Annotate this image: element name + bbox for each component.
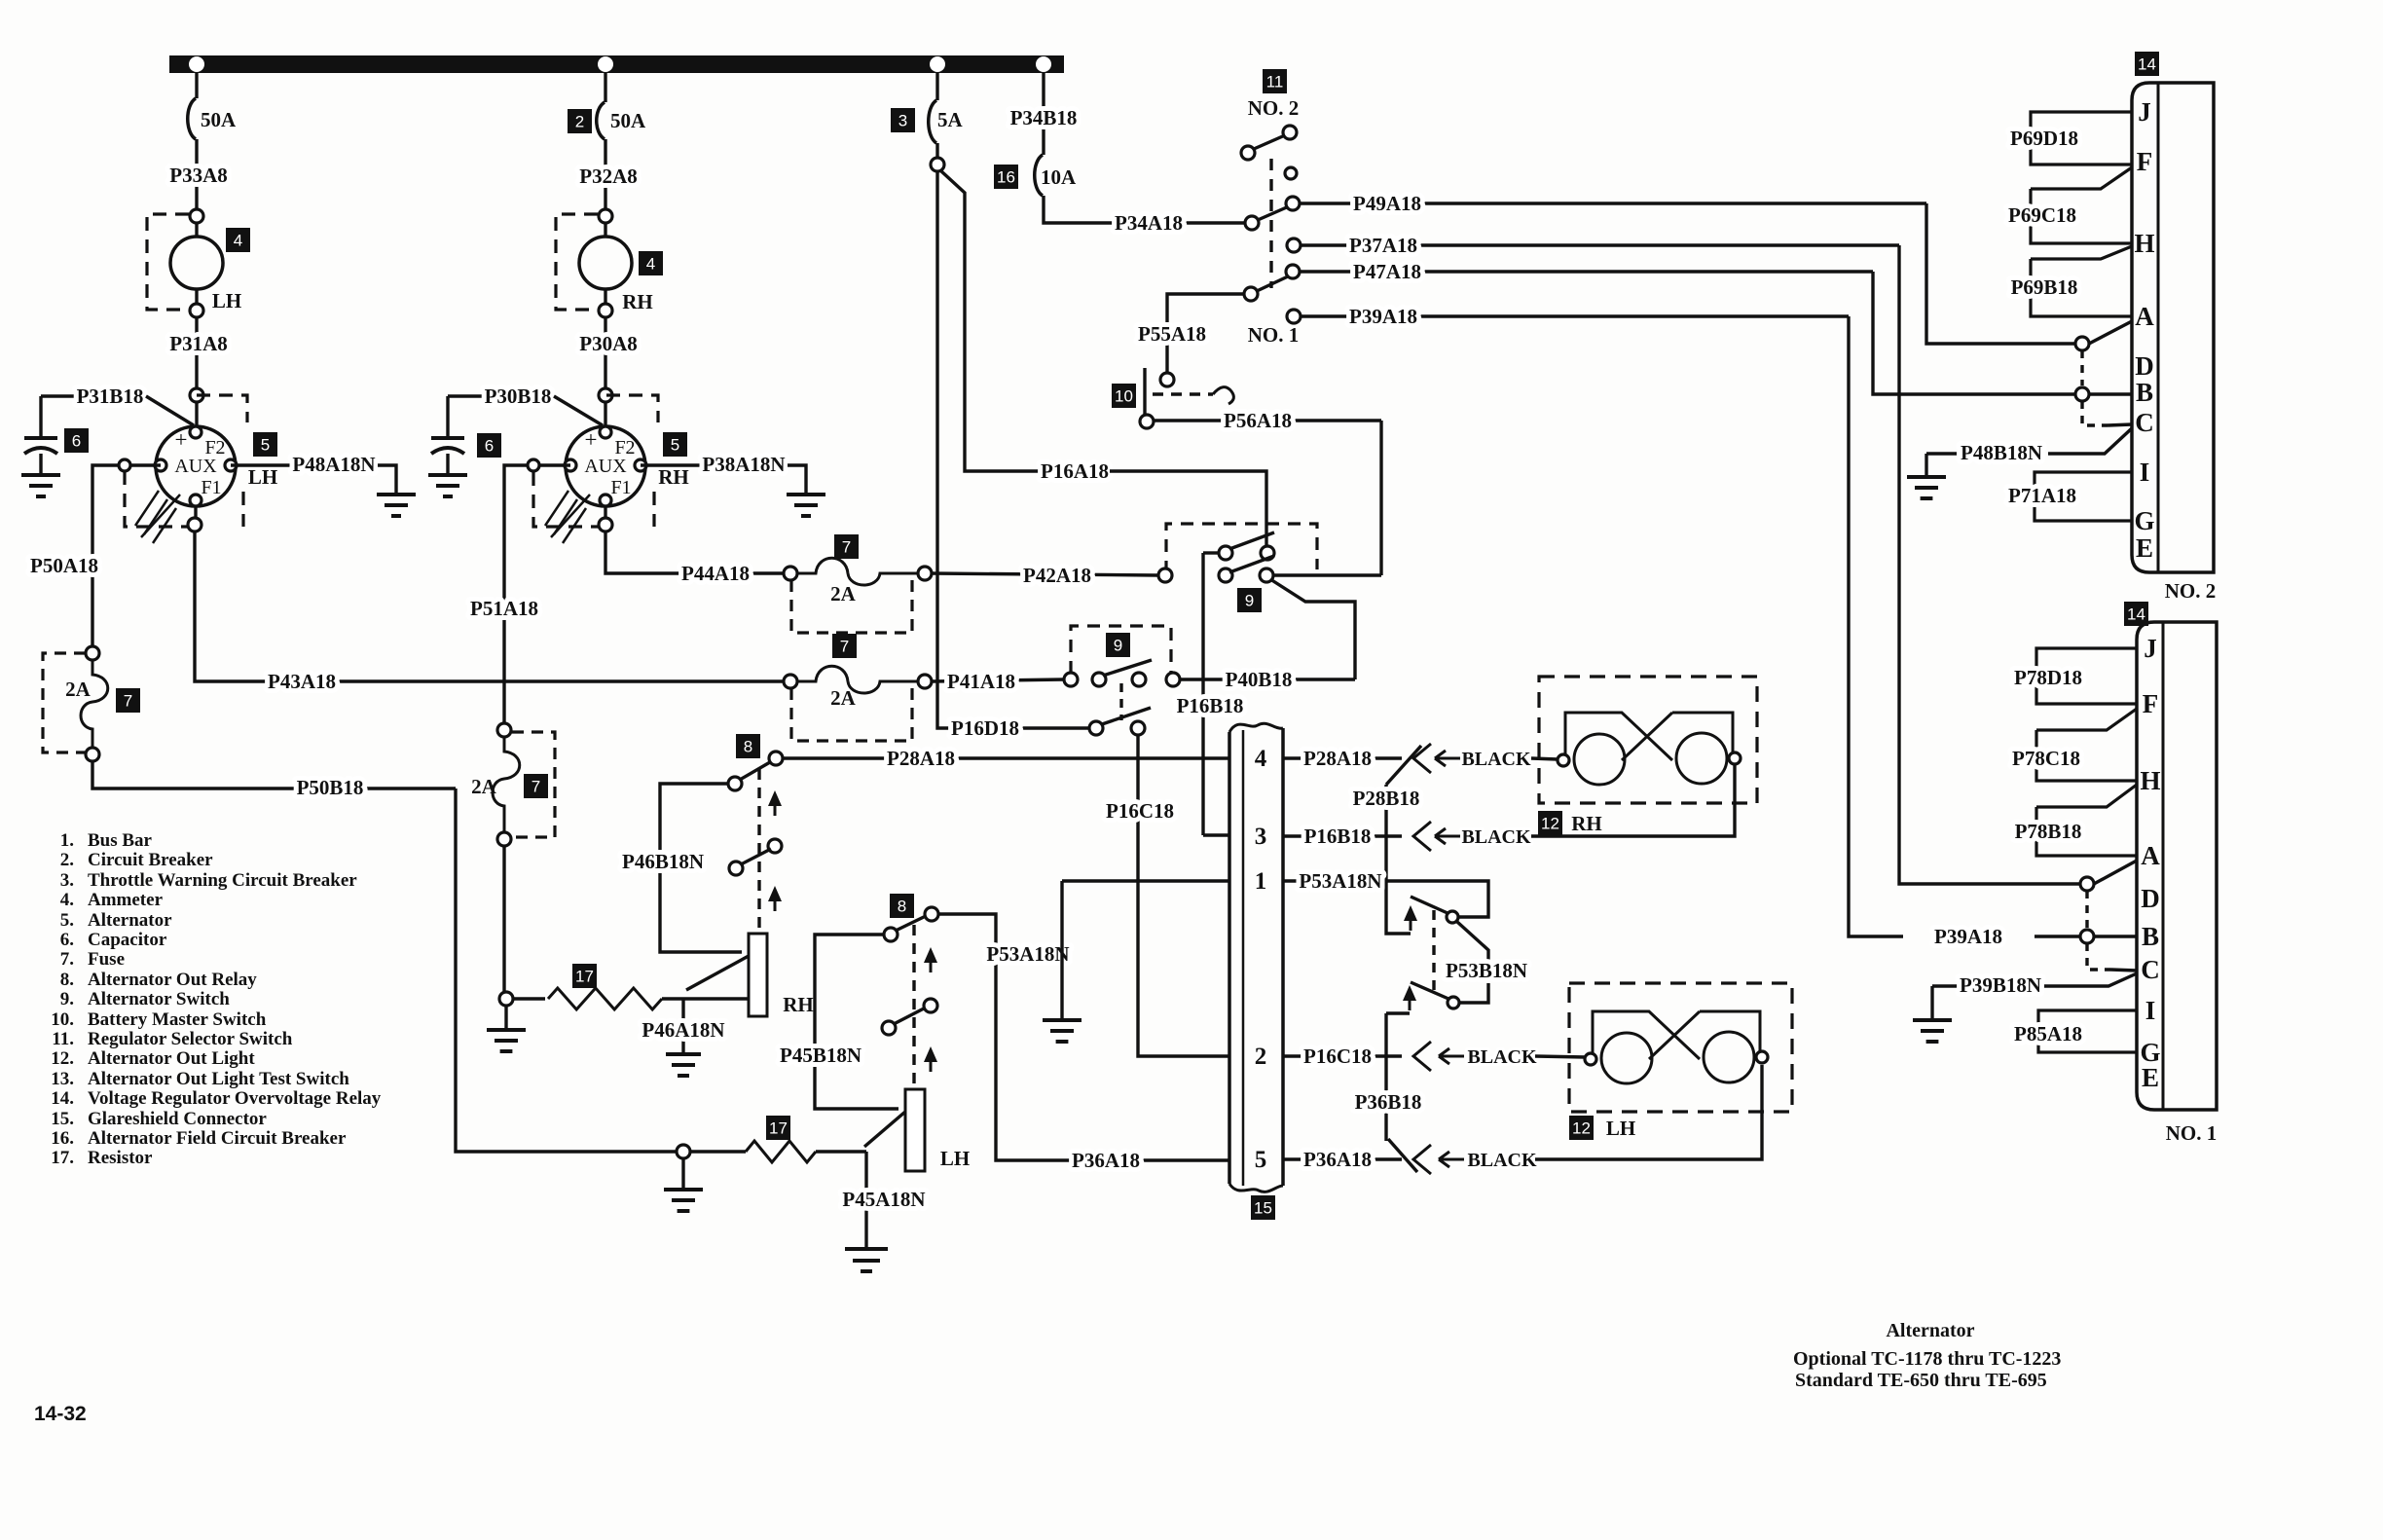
wire P39A18 drop: [1849, 316, 1903, 936]
bus junction node 2: [598, 56, 613, 72]
spade pin4: [1413, 744, 1431, 773]
wire aux LH to junction: [130, 463, 161, 466]
wire into pin B no1: [2094, 935, 2138, 937]
P36B18 tail: [1388, 1139, 1417, 1172]
badge 6 LH: [64, 428, 89, 453]
alternator field circuit breaker 10A (item 16): [1035, 155, 1043, 196]
badge 17 LH: [766, 1116, 790, 1140]
svg-text:P45B18N: P45B18N: [780, 1044, 862, 1067]
svg-text:Battery Master Switch: Battery Master Switch: [88, 1009, 267, 1030]
svg-text:Glareshield Connector: Glareshield Connector: [88, 1109, 267, 1129]
svg-text:P49A18: P49A18: [1353, 192, 1421, 215]
svg-text:7: 7: [842, 538, 851, 557]
svg-text:D: D: [2141, 884, 2160, 913]
wire into pin C no1: [2110, 970, 2137, 971]
svg-text:5: 5: [671, 436, 679, 455]
svg-text:7: 7: [840, 638, 849, 656]
wire P31B18 diagonal: [146, 396, 194, 425]
svg-text:Resistor: Resistor: [88, 1148, 153, 1168]
svg-text:F1: F1: [201, 477, 221, 498]
svg-text:B: B: [2136, 378, 2153, 407]
svg-text:Alternator Out Light: Alternator Out Light: [88, 1048, 255, 1069]
alternator switch (item 9) dashed box left: [1071, 626, 1171, 674]
svg-text:P50A18: P50A18: [30, 554, 98, 577]
svg-text:P53A18N: P53A18N: [986, 942, 1069, 966]
wire P53A18N left: [1062, 879, 1229, 882]
svg-text:P28B18: P28B18: [1353, 787, 1420, 810]
svg-text:BLACK: BLACK: [1461, 826, 1531, 848]
svg-text:Alternator Field Circuit Break: Alternator Field Circuit Breaker: [88, 1128, 347, 1149]
battery master switch dashed link: [1153, 392, 1213, 395]
wire aux RH to junction: [539, 463, 570, 466]
wire to resistor LH: [690, 1150, 746, 1153]
fuse P51 top terminal: [497, 723, 511, 737]
wire P28A18: [783, 756, 1229, 759]
wire P31B18: [41, 394, 76, 397]
svg-text:P16B18: P16B18: [1304, 825, 1372, 848]
svg-text:2: 2: [575, 113, 584, 131]
svg-text:I: I: [2140, 458, 2150, 487]
svg-text:P38A18N: P38A18N: [702, 453, 785, 476]
wire P45A18N: [864, 1152, 867, 1249]
badge 7 fuse P42: [834, 534, 859, 559]
svg-text:6: 6: [72, 432, 81, 451]
wire P32A8: [604, 139, 606, 209]
switch9L contact c: [1132, 673, 1146, 686]
switch9 upper right contact: [1261, 546, 1274, 560]
wire to pin2 row: [1384, 1013, 1387, 1056]
test switch dashed link: [1432, 910, 1435, 991]
jumper P71A18: [2035, 472, 2132, 521]
svg-text:AUX: AUX: [174, 456, 217, 477]
badge 15: [1251, 1195, 1275, 1220]
throttle warning circuit breaker 5A (item 3): [929, 100, 936, 143]
relayLH mid left contact: [882, 1021, 896, 1035]
glareshield connector (item 15): [1228, 732, 1231, 1184]
badge 3: [891, 108, 915, 132]
wire P36A18 left: [938, 914, 1229, 1160]
relayRH coil box: [749, 934, 767, 1016]
wire black to lampLH: [1535, 1056, 1586, 1057]
selector dashed axis: [1269, 159, 1272, 288]
badge 7 fuse P50: [116, 688, 140, 713]
resistor LH (item 17): [746, 1141, 816, 1162]
svg-text:P41A18: P41A18: [947, 670, 1015, 693]
spade pin3: [1413, 822, 1431, 851]
svg-text:2A: 2A: [471, 775, 497, 798]
splice circle no1 A: [2080, 877, 2094, 891]
svg-text:1: 1: [1255, 868, 1267, 895]
svg-text:Alternator Switch: Alternator Switch: [88, 989, 230, 1009]
wire P56A18: [1154, 419, 1381, 422]
P28B18 tail: [1386, 746, 1421, 785]
badge 10 battery master switch: [1112, 384, 1136, 408]
svg-text:6: 6: [485, 437, 494, 456]
svg-text:P36B18: P36B18: [1355, 1090, 1422, 1114]
wire P47A18: [1300, 270, 1873, 273]
junction circle LH aux: [119, 459, 130, 471]
ground below P51A18: [504, 1006, 507, 1030]
jumper P85A18: [2038, 1010, 2137, 1052]
jumper P69B18: [2031, 246, 2132, 316]
svg-text:9: 9: [1245, 592, 1254, 610]
svg-text:P32A8: P32A8: [579, 165, 638, 188]
svg-text:F: F: [2137, 147, 2153, 176]
wire resistor RH to coil: [662, 997, 749, 1000]
svg-text:LH: LH: [212, 289, 241, 312]
svg-text:15.: 15.: [51, 1109, 74, 1129]
svg-text:P50B18: P50B18: [297, 776, 364, 799]
wire P30A8: [604, 317, 606, 388]
svg-text:P48A18N: P48A18N: [292, 453, 375, 476]
wire to alternator RH: [604, 402, 606, 426]
ground P45A18N: [845, 1249, 888, 1271]
contact P49A18: [1286, 197, 1300, 210]
badge 9 right: [1237, 588, 1262, 612]
badge 12 LH: [1569, 1116, 1594, 1140]
relayLH dashed actuator: [912, 925, 915, 1085]
selector arm no2: [1258, 206, 1289, 220]
svg-text:12.: 12.: [51, 1048, 74, 1069]
contact P47A18: [1286, 265, 1300, 278]
switch9 lower feed contact: [1158, 568, 1172, 582]
svg-text:14.: 14.: [51, 1088, 74, 1109]
badge 12 RH: [1538, 811, 1562, 835]
wire CB3 to node: [935, 143, 938, 158]
wire P48A18N: [231, 463, 292, 466]
svg-text:D: D: [2135, 351, 2154, 381]
badge 11 regulator selector switch: [1263, 69, 1287, 93]
svg-text:10.: 10.: [51, 1009, 74, 1030]
svg-text:P69C18: P69C18: [2008, 203, 2076, 227]
switch9L contact a: [1064, 673, 1078, 686]
circuit breaker 50A LH: [188, 98, 196, 139]
svg-text:RH: RH: [622, 290, 653, 313]
ground P38A18N: [787, 495, 825, 516]
svg-text:LH: LH: [940, 1147, 970, 1170]
svg-text:14-32: 14-32: [34, 1403, 87, 1425]
relayRH arrow upper: [774, 800, 777, 816]
svg-text:P78B18: P78B18: [2015, 820, 2082, 843]
wire P39B18N: [1932, 984, 1959, 987]
switch9 upper left contact: [1219, 546, 1232, 560]
svg-text:P39B18N: P39B18N: [1960, 973, 2041, 997]
svg-text:6.: 6.: [60, 930, 74, 950]
alternator LH (item 5): [156, 426, 236, 506]
wire black to lampLH right: [1535, 1065, 1762, 1159]
dashed no2 A-B: [2080, 350, 2083, 385]
ammeter RH bottom terminal: [599, 304, 612, 317]
svg-text:P30B18: P30B18: [485, 385, 552, 408]
wire P39A18: [1301, 314, 1849, 317]
selector arm no1: [1257, 276, 1288, 291]
fuse P44 left terminal: [784, 567, 797, 580]
badge 8 LH relay: [890, 894, 914, 918]
svg-text:P28A18: P28A18: [1303, 747, 1372, 770]
resistor RH junction: [499, 992, 513, 1006]
wire P50B18 vertical to resistor LH: [456, 788, 677, 1152]
badge 2: [568, 109, 592, 133]
bus junction node 4: [1036, 56, 1051, 72]
wire pin5 P36A18: [1283, 1157, 1402, 1160]
ground below resistor LH junction: [681, 1158, 684, 1190]
wire P49A18 drop: [1926, 203, 2075, 344]
svg-text:AUX: AUX: [584, 456, 627, 477]
P16D18 switch arm: [1102, 708, 1151, 724]
svg-text:50A: 50A: [201, 108, 237, 131]
svg-text:P46A18N: P46A18N: [642, 1018, 724, 1042]
svg-text:NO. 2: NO. 2: [2165, 579, 2217, 603]
relayLH arrow upper: [930, 957, 933, 972]
svg-text:E: E: [2136, 533, 2153, 563]
dashed gang link switch9L: [1119, 683, 1122, 720]
capacitor C LH (item 6): [39, 396, 42, 438]
alternator out light LH dashed box: [1569, 983, 1792, 1112]
wire ammeter LH bottom: [195, 289, 198, 304]
wire black to lampRH: [1531, 758, 1558, 759]
capacitor C RH (item 6): [446, 396, 449, 438]
relayRH coil pointer: [686, 956, 749, 990]
alternator LH top connection: [190, 388, 203, 402]
svg-text:C: C: [2141, 955, 2160, 984]
dashed no1 A-B: [2085, 891, 2088, 928]
badge 4 LH: [226, 228, 250, 252]
wire P30B18: [448, 394, 484, 397]
svg-text:Regulator Selector Switch: Regulator Selector Switch: [88, 1029, 293, 1049]
alternator RH (item 5): [566, 426, 645, 506]
svg-text:P28A18: P28A18: [887, 747, 955, 770]
contact P34A18: [1245, 216, 1259, 230]
battery master switch lever: [1143, 368, 1146, 417]
badge 5 RH: [663, 432, 687, 457]
spade pin2: [1413, 1042, 1431, 1071]
relayLH coil box: [905, 1089, 925, 1171]
svg-text:C: C: [2135, 408, 2154, 437]
test switch upper arm: [1411, 897, 1448, 913]
svg-text:Standard TE-650 thru TE-695: Standard TE-650 thru TE-695: [1795, 1370, 2047, 1391]
svg-text:8.: 8.: [60, 970, 74, 990]
contact P37A18: [1287, 238, 1301, 252]
relayRH mid right contact: [768, 839, 782, 853]
svg-text:P51A18: P51A18: [470, 597, 538, 620]
svg-text:NO. 1: NO. 1: [1248, 323, 1300, 347]
svg-text:H: H: [2134, 229, 2154, 258]
test switch lower arm: [1411, 982, 1448, 999]
relayLH top left contact: [884, 928, 898, 941]
jumper P69D18: [2031, 112, 2132, 165]
switch9L contact b: [1092, 673, 1106, 686]
svg-text:P46B18N: P46B18N: [622, 850, 704, 873]
svg-text:H: H: [2140, 766, 2160, 795]
alternator LH dashed box: [197, 395, 247, 422]
jumper P69C18: [2031, 167, 2132, 243]
ammeter LH top terminal: [190, 209, 203, 223]
svg-text:P55A18: P55A18: [1138, 322, 1206, 346]
svg-text:2A: 2A: [65, 678, 92, 701]
stub P16B18 to switch: [1203, 551, 1219, 554]
svg-text:5: 5: [261, 436, 270, 455]
switch9 lower left contact: [1219, 568, 1232, 582]
svg-text:9.: 9.: [60, 989, 74, 1009]
svg-text:50A: 50A: [610, 109, 646, 132]
svg-text:Alternator: Alternator: [88, 910, 172, 931]
wire to alternator LH: [195, 402, 198, 426]
svg-text:G: G: [2134, 506, 2154, 535]
bus bar (item 1): [169, 55, 1064, 73]
relayRH arrow lower: [774, 896, 777, 911]
wire P53B18N upper: [1457, 922, 1488, 962]
svg-text:BLACK: BLACK: [1467, 1150, 1537, 1171]
svg-text:LH: LH: [248, 465, 277, 489]
wire P46A18N: [681, 999, 684, 1054]
test switch arrow upper: [1410, 915, 1412, 931]
alternator out light RH dashed box: [1539, 677, 1757, 803]
svg-text:P44A18: P44A18: [681, 562, 750, 585]
svg-text:P39A18: P39A18: [1349, 305, 1417, 328]
svg-text:P37A18: P37A18: [1349, 234, 1417, 257]
wire P46B18N loop: [660, 784, 742, 952]
switch9 lower right contact: [1260, 568, 1273, 582]
svg-text:P16C18: P16C18: [1106, 799, 1174, 823]
svg-text:14: 14: [2127, 605, 2145, 624]
svg-text:I: I: [2145, 996, 2156, 1025]
svg-text:7: 7: [532, 778, 540, 796]
wire into pin C no2: [2108, 424, 2132, 425]
svg-text:Capacitor: Capacitor: [88, 930, 167, 950]
svg-text:3: 3: [1255, 824, 1267, 850]
wire P45B18N loop: [815, 935, 898, 1109]
svg-text:P42A18: P42A18: [1023, 564, 1091, 587]
svg-text:NO. 2: NO. 2: [1248, 96, 1300, 120]
wire P47A18 drop: [1873, 272, 2075, 394]
svg-text:LH: LH: [1606, 1117, 1635, 1140]
svg-text:B: B: [2142, 922, 2159, 951]
wire P16A18: [940, 170, 1041, 471]
svg-text:Alternator Out Relay: Alternator Out Relay: [88, 970, 257, 990]
svg-text:Bus Bar: Bus Bar: [88, 830, 153, 851]
svg-text:P34B18: P34B18: [1010, 106, 1078, 129]
svg-text:17: 17: [575, 968, 594, 986]
svg-text:16: 16: [997, 168, 1015, 187]
svg-text:12: 12: [1541, 815, 1559, 833]
wire RH aux to P51A18: [504, 465, 528, 472]
contact P39A18: [1287, 310, 1301, 323]
P16D18 switch: [1089, 721, 1103, 735]
svg-text:3: 3: [898, 112, 907, 130]
badge 8 RH relay: [736, 734, 760, 758]
fuse P41 left terminal: [784, 675, 797, 688]
splice circle no1 B: [2080, 930, 2094, 943]
switch9L arm: [1103, 660, 1152, 676]
svg-text:P40B18: P40B18: [1226, 668, 1293, 691]
relayLH arrow lower: [930, 1056, 933, 1072]
wire P50A18: [92, 465, 119, 646]
wire resistor LH out: [816, 1150, 866, 1153]
svg-text:17: 17: [769, 1119, 788, 1138]
svg-text:P53B18N: P53B18N: [1446, 959, 1527, 982]
alternator out light test switch (item 13) upper: [1447, 911, 1458, 923]
svg-text:P56A18: P56A18: [1224, 409, 1292, 432]
ground below capacitor LH: [21, 475, 60, 496]
wire P31A8: [195, 317, 198, 388]
wire P44A18: [605, 532, 784, 573]
svg-text:RH: RH: [1571, 812, 1602, 835]
svg-text:2A: 2A: [830, 686, 857, 710]
fuse 2A on P50 (item 7): [81, 660, 108, 748]
jumper P78B18: [2036, 785, 2137, 856]
fuse P42 dashed box: [791, 580, 912, 633]
arrow black pin5: [1439, 1152, 1464, 1167]
test switch step lower: [1386, 1011, 1410, 1014]
fuse P50 dashed box: [43, 653, 86, 752]
wire P16C18 vertical: [1138, 735, 1229, 1056]
fuse P41 dashed box: [791, 688, 912, 741]
alternator LH bottom connection: [188, 518, 202, 532]
fuse P50 bottom terminal: [86, 748, 99, 761]
fuse P44 right terminal: [918, 567, 932, 580]
battery master switch hook: [1213, 387, 1233, 404]
arrow black pin3: [1435, 828, 1460, 844]
switch9 lower arm: [1229, 556, 1274, 572]
wire pin1 P53A18N: [1283, 881, 1488, 917]
svg-text:16.: 16.: [51, 1128, 74, 1149]
relayLH top arm: [896, 916, 926, 931]
wire P30B18 diagonal: [554, 396, 603, 425]
jumper P78C18: [2036, 709, 2137, 781]
ground P48B18N: [1925, 454, 1927, 477]
wire bus to CB3: [935, 73, 938, 100]
svg-text:Voltage Regulator Overvoltage: Voltage Regulator Overvoltage Relay: [88, 1088, 382, 1109]
svg-text:P33A8: P33A8: [169, 164, 228, 187]
svg-text:7: 7: [124, 692, 132, 711]
junction circle RH aux: [528, 459, 539, 471]
switch9 upper arm: [1229, 532, 1274, 549]
arrow black pin2: [1439, 1048, 1464, 1064]
wire P41A18: [932, 679, 1064, 681]
svg-text:4.: 4.: [60, 890, 74, 910]
svg-text:13.: 13.: [51, 1069, 74, 1089]
alternator RH top connection: [599, 388, 612, 402]
alternator out light RH (item 12): [1565, 713, 1672, 760]
wire P16D18 vertical: [937, 171, 1089, 728]
wire ammeter RH top: [604, 223, 606, 237]
svg-text:8: 8: [898, 898, 906, 916]
svg-text:3.: 3.: [60, 870, 74, 891]
stub pin3: [1203, 833, 1229, 836]
svg-text:17.: 17.: [51, 1148, 74, 1168]
ground P39B18N: [1930, 986, 1933, 1020]
voltage regulator overvoltage relay NO.1 (item 14): [2137, 622, 2217, 1110]
relayRH top right contact: [769, 752, 783, 765]
relayRH top arm: [740, 762, 770, 780]
svg-text:10: 10: [1115, 387, 1133, 406]
switch9L contact d: [1166, 673, 1180, 686]
svg-text:P43A18: P43A18: [268, 670, 336, 693]
svg-text:P16B18: P16B18: [1177, 694, 1244, 717]
svg-text:11.: 11.: [52, 1029, 74, 1049]
dashed no2 B-C: [2082, 401, 2108, 425]
svg-text:15: 15: [1254, 1199, 1272, 1218]
svg-text:Optional TC-1178 thru TC-1223: Optional TC-1178 thru TC-1223: [1793, 1348, 2061, 1370]
svg-text:P31A8: P31A8: [169, 332, 228, 355]
svg-text:5.: 5.: [60, 910, 74, 931]
svg-text:J: J: [2144, 634, 2157, 663]
svg-text:P85A18: P85A18: [2014, 1022, 2082, 1045]
fuse P51 dashed box: [512, 732, 555, 837]
dashed no1 B-C: [2087, 943, 2110, 970]
fuse P51 bottom terminal: [497, 832, 511, 846]
test switch arrow lower: [1409, 995, 1411, 1010]
